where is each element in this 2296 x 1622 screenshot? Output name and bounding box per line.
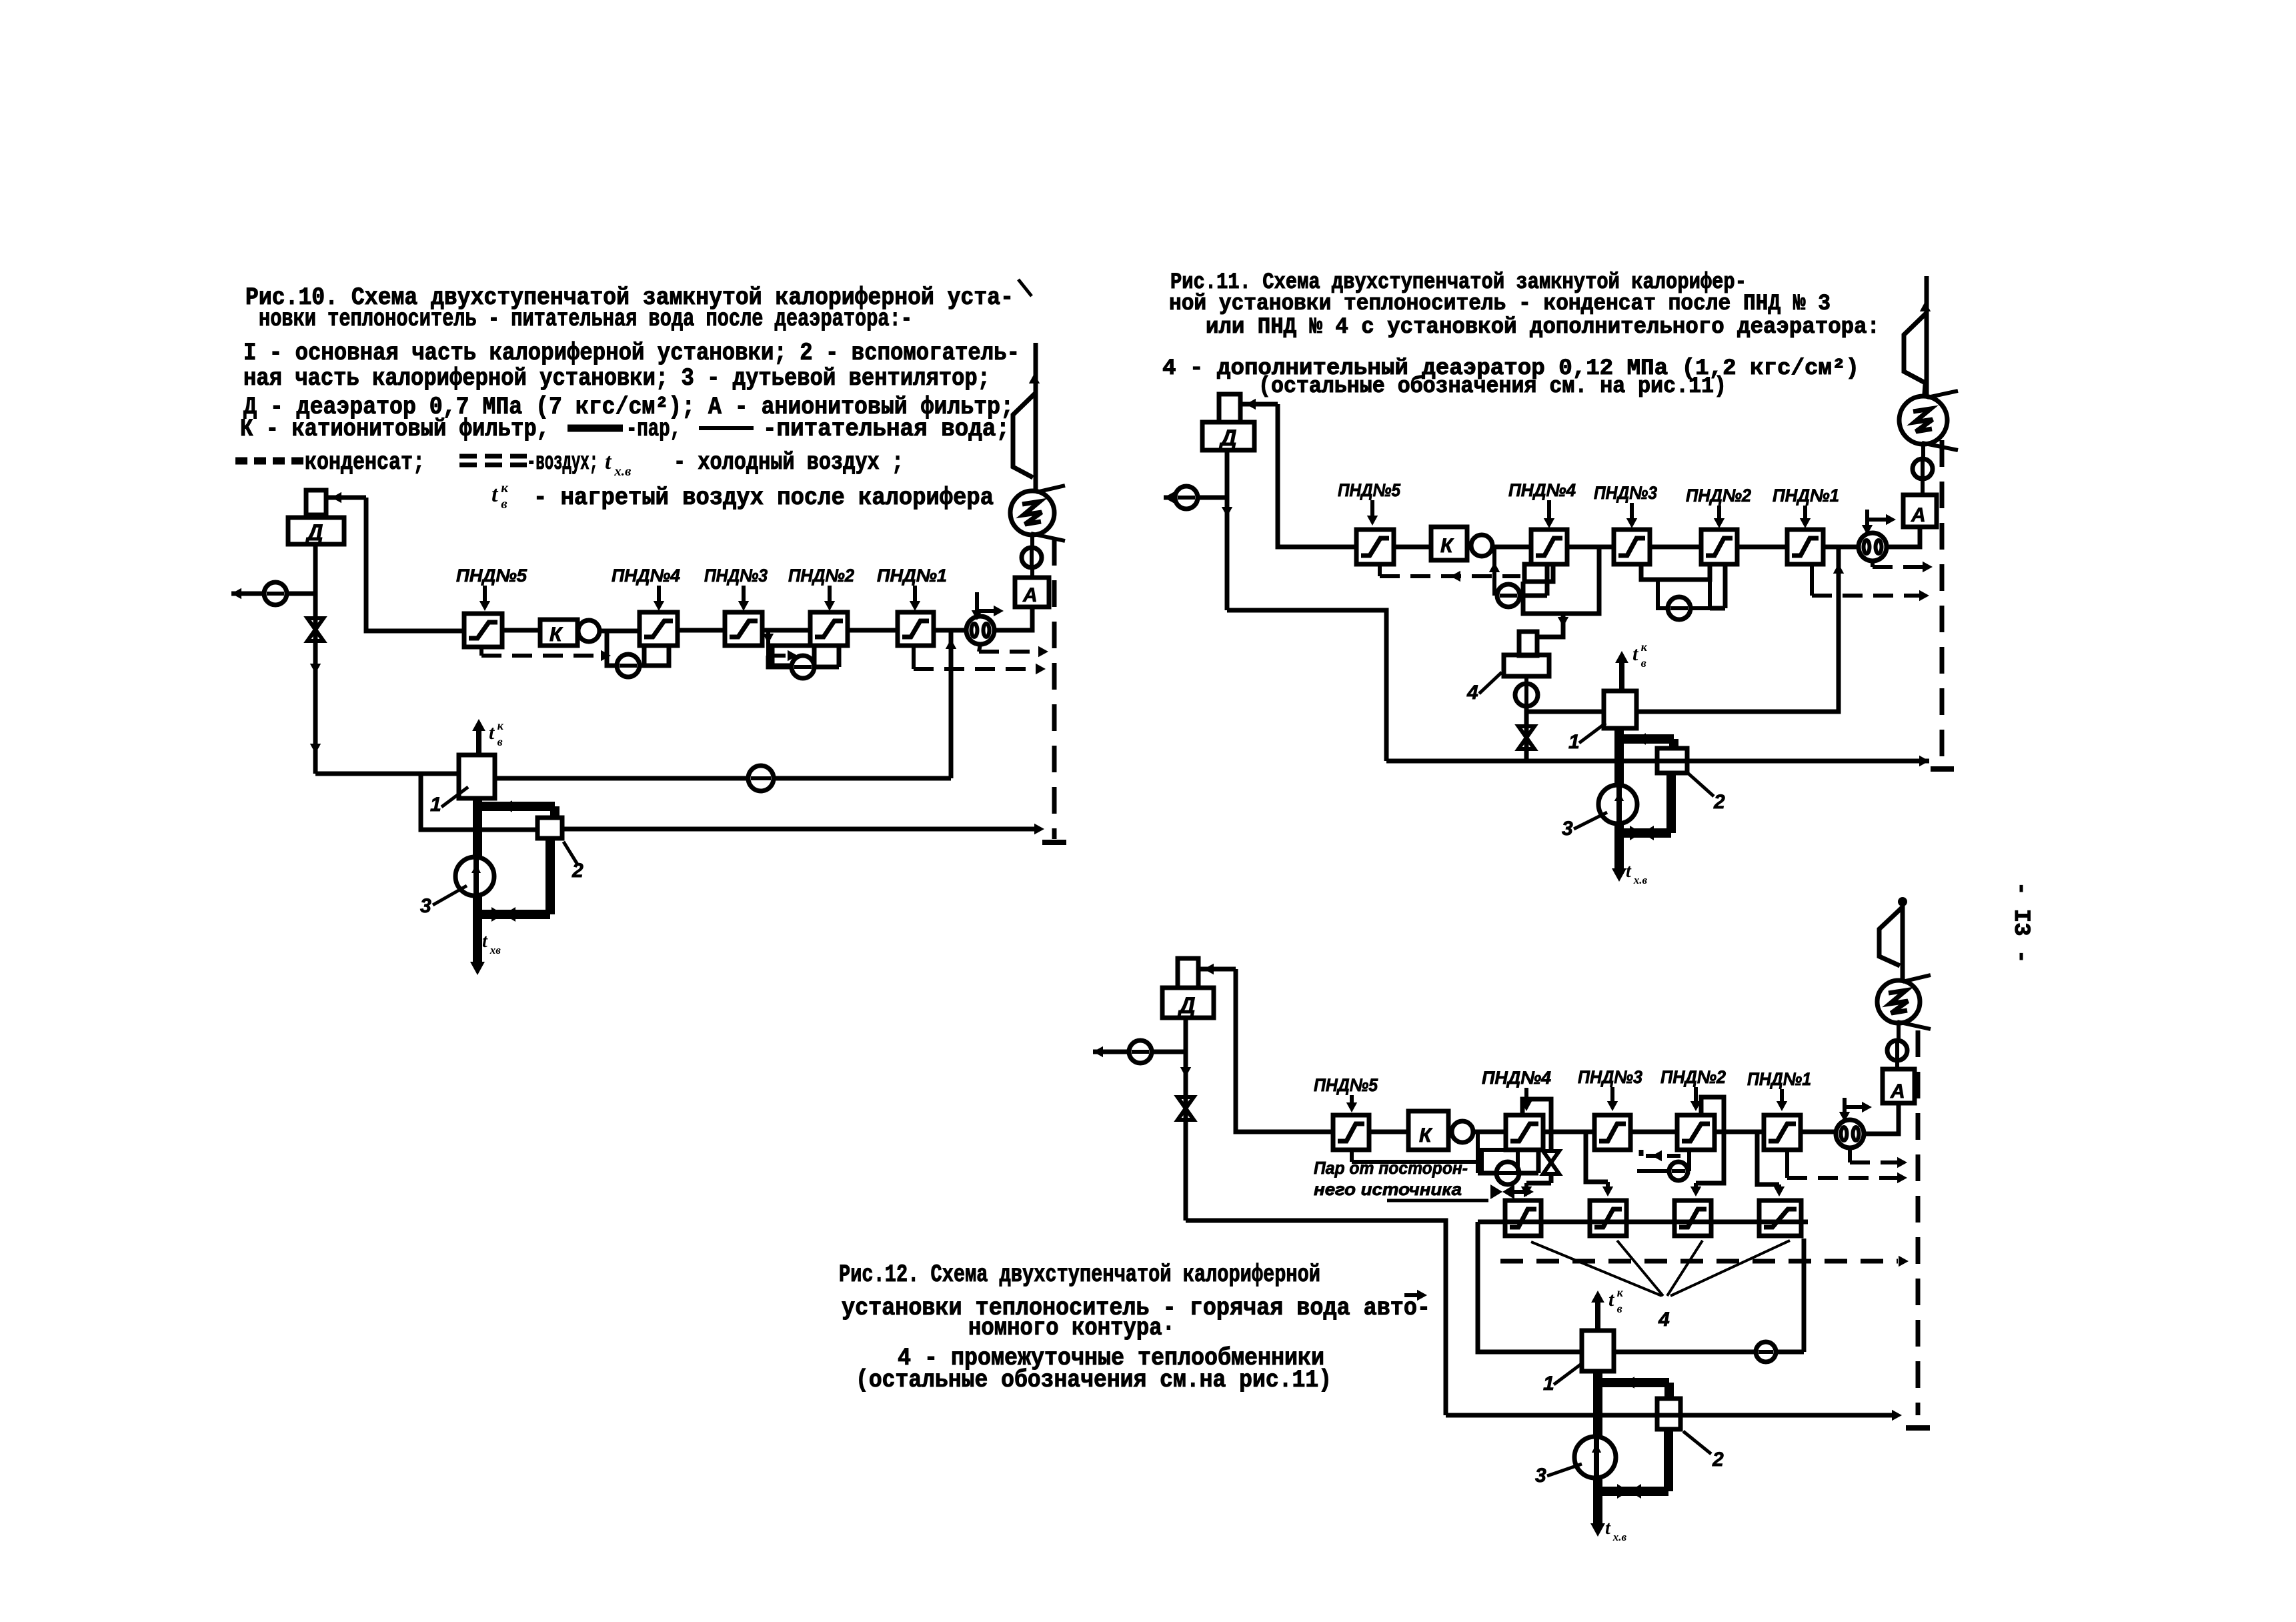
fig.10 duct link to kalorifer-2 <box>477 800 555 818</box>
legend steam line sample <box>567 425 623 432</box>
fig.11 caption line 1 <box>1170 270 1747 295</box>
fig.11 deaerator-4 tank <box>1504 655 1549 676</box>
fig.10 condenser-heater <box>1010 486 1065 541</box>
fig.10 caption line 6 -пар, <box>626 416 681 444</box>
fig.10 deaerator tank D <box>288 518 344 546</box>
fig.12 intermediate HX a <box>1505 1200 1541 1236</box>
fig.11 drain PND2/3 collector <box>1641 564 1710 608</box>
fig.11 pump to network <box>1175 486 1198 509</box>
fig.12 pump to network <box>1129 1040 1152 1063</box>
fig.10 label t_xv <box>482 931 501 956</box>
svg-text:ПНД№5: ПНД№5 <box>456 566 527 586</box>
fig.10 caption line 8 <box>533 484 994 512</box>
fig.12 intermediate HX c <box>1674 1200 1711 1236</box>
fig.12 wire to filter A <box>1864 1104 1899 1134</box>
fig.10 caption line 3 <box>243 339 1020 367</box>
fig.10 heater PND N4 <box>640 612 678 646</box>
fig.10 cation filter K <box>540 620 578 646</box>
fig.10 anionite filter A <box>1015 578 1049 607</box>
fig.12 condensate dashed vertical <box>1906 1030 1930 1428</box>
fig.12 label PND N4 <box>1482 1068 1551 1111</box>
fig.12 drain line PND2/3 <box>1637 1169 1669 1173</box>
fig.11 label PND N5 <box>1338 480 1401 526</box>
svg-text:К: К <box>1440 535 1454 557</box>
fig.12 HX pointer lines to label 4 <box>1531 1241 1790 1296</box>
fig.10 drain PND5 <box>481 647 611 661</box>
svg-text:- нагретый воздух после калори: - нагретый воздух после калорифера <box>533 484 994 512</box>
fig.10 wire row seg 6 <box>934 628 966 633</box>
svg-text:-воздух;: -воздух; <box>527 449 598 477</box>
svg-text:ная часть калориферной установ: ная часть калориферной установки; 3 - ду… <box>243 365 990 393</box>
fig.12 caption line 2 <box>842 1295 1430 1323</box>
fig.11 caption line 4 <box>1162 356 1859 381</box>
fig.11 wire row seg 6 <box>1823 545 1859 550</box>
fig.12 arrow into flow meter <box>1839 1098 1872 1122</box>
fig.11 drain junction under K <box>1489 547 1500 596</box>
svg-text:к: к <box>1617 1286 1624 1299</box>
svg-text:Рис.12. Схема двухступенчатой: Рис.12. Схема двухступенчатой калориферн… <box>839 1261 1320 1289</box>
fig.11 label 2 pointer <box>1688 774 1725 813</box>
fig.12 fan circle 3 <box>1574 1437 1616 1478</box>
svg-text:ной установки теплоноситель -: ной установки теплоноситель - конденсат … <box>1169 291 1831 317</box>
fig.11 deaerator vent box <box>1219 394 1240 422</box>
svg-text:t: t <box>482 931 488 952</box>
fig.12 caption line 3 <box>968 1315 1175 1343</box>
fig.11 heater PND N1 <box>1787 530 1823 564</box>
svg-text:1: 1 <box>1543 1373 1554 1395</box>
fig.10 kalorifer-1 return line <box>495 776 951 781</box>
fig.11 heater PND N4 <box>1531 530 1567 564</box>
fig.12 cold air duct <box>1590 1371 1605 1537</box>
fig.12 hat PND4 with valve <box>1521 1099 1551 1196</box>
fig.10 cold air duct <box>470 798 485 975</box>
svg-text:t: t <box>1626 861 1632 882</box>
fig.11 wire row seg 5 <box>1737 545 1787 550</box>
fig.12 air dashed line <box>1500 1256 1909 1267</box>
fig.10 drain collector PND4 <box>644 646 669 666</box>
svg-text:ПНД№2: ПНД№2 <box>1660 1067 1726 1087</box>
fig.10 flow meter <box>966 616 994 644</box>
fig.10 heater PND N1 <box>898 612 934 646</box>
fig.10 drain arrow PND2 <box>763 631 774 656</box>
fig.10 circle under condenser <box>1022 533 1042 579</box>
fig.10 wire bypass loop <box>421 774 537 830</box>
fig.11 flow meter <box>1859 533 1887 561</box>
fig.11 cation filter K <box>1431 527 1467 560</box>
fig.10 drain dashes PND2 <box>774 650 798 661</box>
fig.11 drain pump PND2/3 <box>1668 597 1690 620</box>
svg-text:А: А <box>1911 504 1926 526</box>
fig.10 label PND N1 <box>877 566 947 611</box>
svg-text:Д: Д <box>305 520 323 546</box>
svg-text:А: А <box>1022 584 1038 606</box>
fig.10 drain pump PND4 <box>617 654 640 677</box>
fig.11 hot air arrow t_v^k <box>1615 640 1648 691</box>
fig.12 valve on deaerator outlet <box>1178 1097 1194 1120</box>
fig.10 wire row seg 5 <box>848 628 898 633</box>
fig.12 circle under condenser <box>1887 1022 1907 1070</box>
svg-text:(остальные обозначения см. на: (остальные обозначения см. на рис.11) <box>1258 374 1727 399</box>
fig.12 wire row seg 5 <box>1714 1130 1764 1134</box>
svg-text:2: 2 <box>1713 791 1725 813</box>
legend feedwater line sample <box>699 426 754 430</box>
fig.12 turbine steam line <box>1898 897 1907 982</box>
fig.11 condensate dashed vertical <box>1931 440 1954 769</box>
fig.10 drain pump PND2 <box>792 656 814 678</box>
fig.12 external steam valve <box>1490 1184 1534 1199</box>
fig.12 valve on PND4 steam <box>1543 1151 1559 1174</box>
fig.12 drain collector PND4 left <box>1476 1132 1480 1173</box>
svg-text:номного контура·: номного контура· <box>968 1315 1175 1343</box>
fig.11 cold air duct <box>1612 728 1626 882</box>
svg-text:4: 4 <box>1466 682 1478 704</box>
fig.10 wire to filter A <box>994 608 1032 630</box>
fig.11 anionite filter A <box>1903 495 1937 527</box>
fig.10 kalorifer-2 return <box>562 824 1044 834</box>
fig.12 turbine <box>1879 907 1903 966</box>
fig.12 label 1 pointer <box>1543 1365 1580 1395</box>
svg-text:в: в <box>1641 656 1646 670</box>
fig.12 bottom collector line <box>1446 1410 1902 1421</box>
fig.10 wire row seg 2 <box>600 629 640 634</box>
fig.12 caption line 5 <box>856 1367 1332 1395</box>
fig.10 dashed drain to condenser line 2 <box>914 646 1046 674</box>
fig.10 caption line 5 <box>243 393 1014 422</box>
svg-text:ПНД№4: ПНД№4 <box>1482 1068 1551 1088</box>
fig.10 condensate dashed main <box>1042 539 1066 842</box>
fig.11 kalorifer-1 return line <box>1636 547 1844 712</box>
fig.10 drain loop PND4 <box>607 631 669 666</box>
fig.12 kalorifer-2 box <box>1657 1399 1680 1429</box>
fig.12 heater PND N2 <box>1677 1115 1714 1150</box>
fig.12 cation filter K <box>1408 1111 1448 1150</box>
fig.12 heater PND N4 <box>1506 1115 1543 1150</box>
fig.10 label 3 pointer <box>420 886 467 917</box>
fig.11 label 4 pointer <box>1466 672 1502 704</box>
fig.12 flow meter <box>1836 1120 1864 1148</box>
fig.12 drain loop PND4 <box>1478 1150 1538 1173</box>
fig.11 wire left loop <box>1227 610 1386 761</box>
fig.10 riser from kalorifer line <box>946 630 956 778</box>
fig.11 wire network export <box>1164 492 1227 503</box>
svg-text:в: в <box>1617 1302 1622 1315</box>
svg-text:ПНД№3: ПНД№3 <box>1594 483 1657 503</box>
svg-text:t: t <box>491 482 499 507</box>
fig.11 big loop right of PND4 <box>1523 547 1599 614</box>
svg-text:4: 4 <box>1658 1309 1670 1331</box>
fig.10 caption line 6 -питательная вода; <box>763 416 1010 444</box>
page number - 13 - (rotated) <box>2008 882 2033 963</box>
fig.12 label 3 pointer <box>1535 1464 1582 1487</box>
svg-text:1: 1 <box>1568 731 1580 753</box>
fig.10 label PND N3 <box>704 566 768 611</box>
fig.11 kalorifer-1 box <box>1604 691 1636 728</box>
fig.11 heater PND N3 <box>1614 530 1650 564</box>
svg-text:конденсат;: конденсат; <box>305 449 425 477</box>
fig.11 arrow into flow meter <box>1862 510 1896 535</box>
fig.10 caption line 6 text <box>240 416 549 444</box>
fig.12 HX row line <box>1478 1220 1808 1225</box>
svg-text:в: в <box>501 496 507 512</box>
fig.10 drain loop PND2 <box>768 646 839 667</box>
fig.12 heater PND N1 <box>1764 1115 1801 1150</box>
fig.11 wire deaerator outlet down <box>1222 450 1232 610</box>
fig.10 caption line 4 <box>243 365 990 393</box>
fig.11 kalorifer-2 box <box>1657 748 1687 773</box>
fig.11 wire row seg 2 <box>1492 545 1531 550</box>
fig.11 drain loop PND4 <box>1520 564 1547 596</box>
svg-text:ПНД№3: ПНД№3 <box>1578 1067 1642 1087</box>
svg-text:ПНД№1: ПНД№1 <box>877 566 947 586</box>
fig.11 turbine steam line <box>1920 276 1931 398</box>
fig.10 wire row seg 4 <box>762 628 810 633</box>
fig.12 wire deaerator outlet down <box>1180 1018 1191 1221</box>
fig.12 wire row seg 6 <box>1801 1130 1836 1134</box>
fig.10 label PND N2 <box>788 566 854 611</box>
svg-text:t: t <box>605 450 612 474</box>
fig.11 caption line 2 <box>1169 291 1831 317</box>
fig.10 heater PND N5 <box>464 614 502 647</box>
fig.10 recirc duct with valve <box>477 838 550 922</box>
fig.12 anionite filter A <box>1883 1069 1915 1103</box>
fig.10 caption line 1 <box>245 279 1032 312</box>
svg-text:к: к <box>497 719 504 732</box>
fig.12 wire inner loop to kalorifer <box>1478 1222 1582 1352</box>
fig.11 drain pump PND4 <box>1497 584 1520 607</box>
fig.11 duct link to kalorifer-2 <box>1619 733 1674 748</box>
fig.10 kalorifer-2 box <box>537 818 562 838</box>
svg-text:х.в: х.в <box>1612 1531 1627 1543</box>
fig.12 dashed drain 2 <box>1787 1150 1907 1183</box>
svg-text:(остальные обозначения см.на р: (остальные обозначения см.на рис.11) <box>856 1367 1332 1395</box>
legend condensate dashes <box>235 458 304 465</box>
fig.12 recirc duct with valve <box>1598 1429 1668 1499</box>
svg-text:ПНД№5: ПНД№5 <box>1314 1075 1378 1095</box>
svg-text:1: 1 <box>430 794 441 816</box>
fig.11 circle under condenser <box>1913 444 1933 496</box>
svg-text:ПНД№5: ПНД№5 <box>1338 480 1401 500</box>
svg-text:ПНД№1: ПНД№1 <box>1747 1069 1811 1089</box>
fig.12 wire row seg 4 <box>1630 1130 1677 1134</box>
fig.11 turbine <box>1904 313 1927 398</box>
fig.12 external steam label <box>1314 1158 1488 1200</box>
fig.12 condenser-heater <box>1877 975 1931 1029</box>
fig.11 label PND N1 <box>1773 486 1839 528</box>
fig.12 intermediate HX b <box>1590 1200 1626 1236</box>
fig.11 wire to filter A <box>1887 528 1920 547</box>
svg-text:ПНД№4: ПНД№4 <box>1508 480 1576 500</box>
legend air double line <box>459 456 527 465</box>
fig.12 hot air arrow t_v^k <box>1591 1286 1624 1331</box>
fig.10 label PND N5 <box>456 566 527 611</box>
fig.12 kalorifer-1 feed right <box>1614 1239 1804 1352</box>
fig.11 drain loop PND2/3 <box>1710 564 1725 608</box>
fig.11 drain collector PND4 <box>1524 564 1553 582</box>
fig.10 wire riser to heater row <box>366 498 464 631</box>
fig.12 dashed drain 1 <box>1850 1148 1907 1168</box>
fig.11 pump after K <box>1471 535 1492 556</box>
fig.10 heater PND N3 <box>725 612 762 646</box>
fig.12 heater PND N3 <box>1594 1115 1630 1150</box>
fig.10 drain collector PND2 <box>772 646 814 666</box>
fig.11 bottom collector line <box>1386 756 1929 766</box>
fig.10 caption line 7 -воздух; <box>527 449 598 477</box>
fig.10 turbine steam line <box>1029 343 1040 492</box>
svg-text:3: 3 <box>420 895 431 917</box>
fig.10 deaerator vent box <box>306 490 326 515</box>
svg-text:ПНД№1: ПНД№1 <box>1773 486 1839 506</box>
fig.11 label t_xv <box>1626 861 1648 886</box>
svg-text:К: К <box>1419 1124 1433 1146</box>
svg-text:3: 3 <box>1535 1465 1546 1487</box>
fig.12 label PND N1 <box>1747 1069 1811 1111</box>
fig.11 valve on outlet <box>1518 726 1534 749</box>
fig.11 recirc duct with valve <box>1619 773 1671 840</box>
fig.11 label 3 pointer <box>1562 812 1607 840</box>
svg-text:в: в <box>497 735 503 748</box>
fig.10 pump on return line <box>748 766 774 791</box>
fig.12 drain PND2/3 collector <box>1641 1150 1689 1171</box>
fig.11 deaerator-4 pump <box>1515 684 1538 706</box>
fig.12 small arrow left <box>1404 1290 1427 1301</box>
fig.11 dashed drain 1 <box>1873 561 1933 572</box>
fig.12 wire row seg 1 <box>1369 1130 1408 1134</box>
fig.12 deaerator vent box <box>1178 958 1198 988</box>
fig.10 wire row seg 1 <box>502 628 540 633</box>
svg-text:х.в: х.в <box>1633 874 1648 886</box>
fig.12 intermediate HX d <box>1759 1200 1801 1236</box>
fig.10 wire to kalorifer-1 <box>315 772 459 776</box>
svg-text:- I3 -: - I3 - <box>2008 882 2033 963</box>
svg-text:Д: Д <box>1177 993 1196 1018</box>
fig.10 arrow on deaerator outlet <box>310 664 321 754</box>
fig.12 label PND N3 <box>1578 1067 1642 1111</box>
fig.12 feed PND1 to HX <box>1757 1132 1785 1196</box>
fig.12 feed PND3 to HX <box>1586 1132 1613 1196</box>
fig.11 kalorifer-1 feed line <box>1526 710 1604 714</box>
fig.11 deaerator-4 outlet <box>1524 676 1528 761</box>
fig.11 deaerator-4 neck <box>1519 632 1537 656</box>
fig.10 dashed drain to condenser line 1 <box>979 644 1048 657</box>
svg-text:ПНД№2: ПНД№2 <box>1686 486 1751 506</box>
fig.11 condenser-heater <box>1899 391 1958 450</box>
fig.12 label 2 pointer <box>1683 1431 1724 1471</box>
fig.10 kalorifer-1 box <box>459 755 495 798</box>
fig.11 label PND N3 <box>1594 483 1657 528</box>
fig.11 label PND N4 <box>1508 480 1576 528</box>
fig.12 deaerator tank D <box>1162 988 1214 1018</box>
fig.12 kalorifer-1 box <box>1582 1331 1614 1371</box>
fig.12 duct link to kalorifer-2 <box>1598 1377 1669 1399</box>
svg-text:ПНД№4: ПНД№4 <box>612 566 680 586</box>
fig.11 wire row seg 3 <box>1567 545 1614 550</box>
svg-text:хв: хв <box>489 944 501 956</box>
svg-text:А: А <box>1890 1080 1905 1102</box>
svg-text:-пар,: -пар, <box>626 416 681 444</box>
svg-text:ПНД№3: ПНД№3 <box>704 566 768 586</box>
fig.10 label 2 pointer <box>563 842 584 882</box>
fig.10 label PND N4 <box>612 566 680 611</box>
fig.12 drain PND5 <box>1352 1150 1478 1162</box>
fig.10 caption line 7 конденсат; <box>305 449 425 477</box>
legend t_v^k symbol <box>491 480 509 512</box>
svg-text:К: К <box>549 624 563 646</box>
fig.12 wire riser to heater row <box>1236 969 1333 1132</box>
fig.12 pump on return <box>1756 1342 1776 1362</box>
fig.12 label PND N2 <box>1660 1067 1726 1111</box>
fig.10 valve on deaerator outlet <box>307 618 323 641</box>
fig.11 caption line 5 <box>1258 374 1727 399</box>
fig.12 wire vent-box feed <box>1198 964 1236 974</box>
fig.12 drain pump PND2/3 <box>1669 1162 1688 1180</box>
fig.11 heater PND N2 <box>1701 530 1737 564</box>
fig.12 hat PND2 <box>1690 1097 1724 1196</box>
fig.11 branch to deaerator-4 <box>1537 614 1568 637</box>
fig.12 label PND N5 <box>1314 1075 1378 1112</box>
svg-text:3: 3 <box>1562 818 1573 840</box>
svg-text:ПНД№2: ПНД№2 <box>788 566 854 586</box>
fig.11 heater PND N5 <box>1356 530 1394 564</box>
fig.12 wire row seg 3 <box>1543 1130 1594 1134</box>
fig.10 fan circle 3 <box>455 857 494 896</box>
fig.12 heater PND N5 <box>1333 1115 1369 1150</box>
svg-text:- холодный воздух ;: - холодный воздух ; <box>674 449 904 477</box>
svg-text:к: к <box>501 480 509 496</box>
fig.10 wire deaerator outlet down <box>313 544 318 774</box>
fig.10 arrow into flow meter <box>972 592 1004 620</box>
fig.12 wire outer loop <box>1186 1221 1446 1415</box>
fig.11 wire vent-box feed <box>1240 399 1278 410</box>
svg-text:новки теплоноситель - питатель: новки теплоноситель - питательная вода п… <box>259 305 912 333</box>
fig.10 heater PND N2 <box>810 612 848 646</box>
fig.10 caption line 7 cold air <box>674 449 904 477</box>
svg-text:него источника: него источника <box>1314 1179 1462 1199</box>
fig.10 pump to network <box>264 582 287 605</box>
fig.11 wire row seg 4 <box>1650 545 1701 550</box>
fig.10 pump after K <box>578 620 600 642</box>
fig.12 wire row seg 2 <box>1473 1130 1506 1134</box>
svg-text:I - основная часть калориферно: I - основная часть калориферной установк… <box>243 339 1020 367</box>
legend t_x.v symbol <box>605 450 632 479</box>
fig.11 dashed drain 2 <box>1812 564 1929 601</box>
fig.12 label t_xv <box>1605 1518 1627 1543</box>
fig.11 drain PND5 dashed <box>1380 564 1520 582</box>
fig.12 pump after K <box>1452 1121 1473 1142</box>
fig.11 label PND N2 <box>1686 486 1751 528</box>
fig.10 caption line 2 <box>259 305 912 333</box>
svg-text:t: t <box>1605 1518 1611 1539</box>
fig.11 wire riser to heater row <box>1278 404 1356 547</box>
fig.10 wire vent-box feed <box>326 492 366 503</box>
svg-text:или ПНД № 4 с установкой допол: или ПНД № 4 с установкой дополнительного… <box>1206 315 1880 340</box>
svg-text:к: к <box>1641 640 1648 654</box>
fig.12 caption line 4 <box>898 1345 1324 1373</box>
fig.11 caption line 3 <box>1206 315 1880 340</box>
fig.10 label 1 pointer <box>430 787 468 816</box>
svg-text:-питательная вода;: -питательная вода; <box>763 416 1010 444</box>
fig.10 hot air arrow t_v^k <box>472 719 504 755</box>
fig.10 wire network export <box>231 588 315 599</box>
fig.11 label 1 pointer <box>1568 723 1606 753</box>
svg-text:К - катионитовый фильтр,: К - катионитовый фильтр, <box>240 416 549 444</box>
fig.12 label 4 <box>1658 1309 1670 1331</box>
fig.12 wire network export <box>1093 1046 1186 1057</box>
svg-text:2: 2 <box>1712 1449 1724 1471</box>
fig.12 caption line 1 <box>839 1261 1320 1289</box>
fig.10 wire row seg 3 <box>678 628 725 633</box>
svg-text:х.в: х.в <box>614 463 632 479</box>
svg-text:Д: Д <box>1218 426 1237 451</box>
